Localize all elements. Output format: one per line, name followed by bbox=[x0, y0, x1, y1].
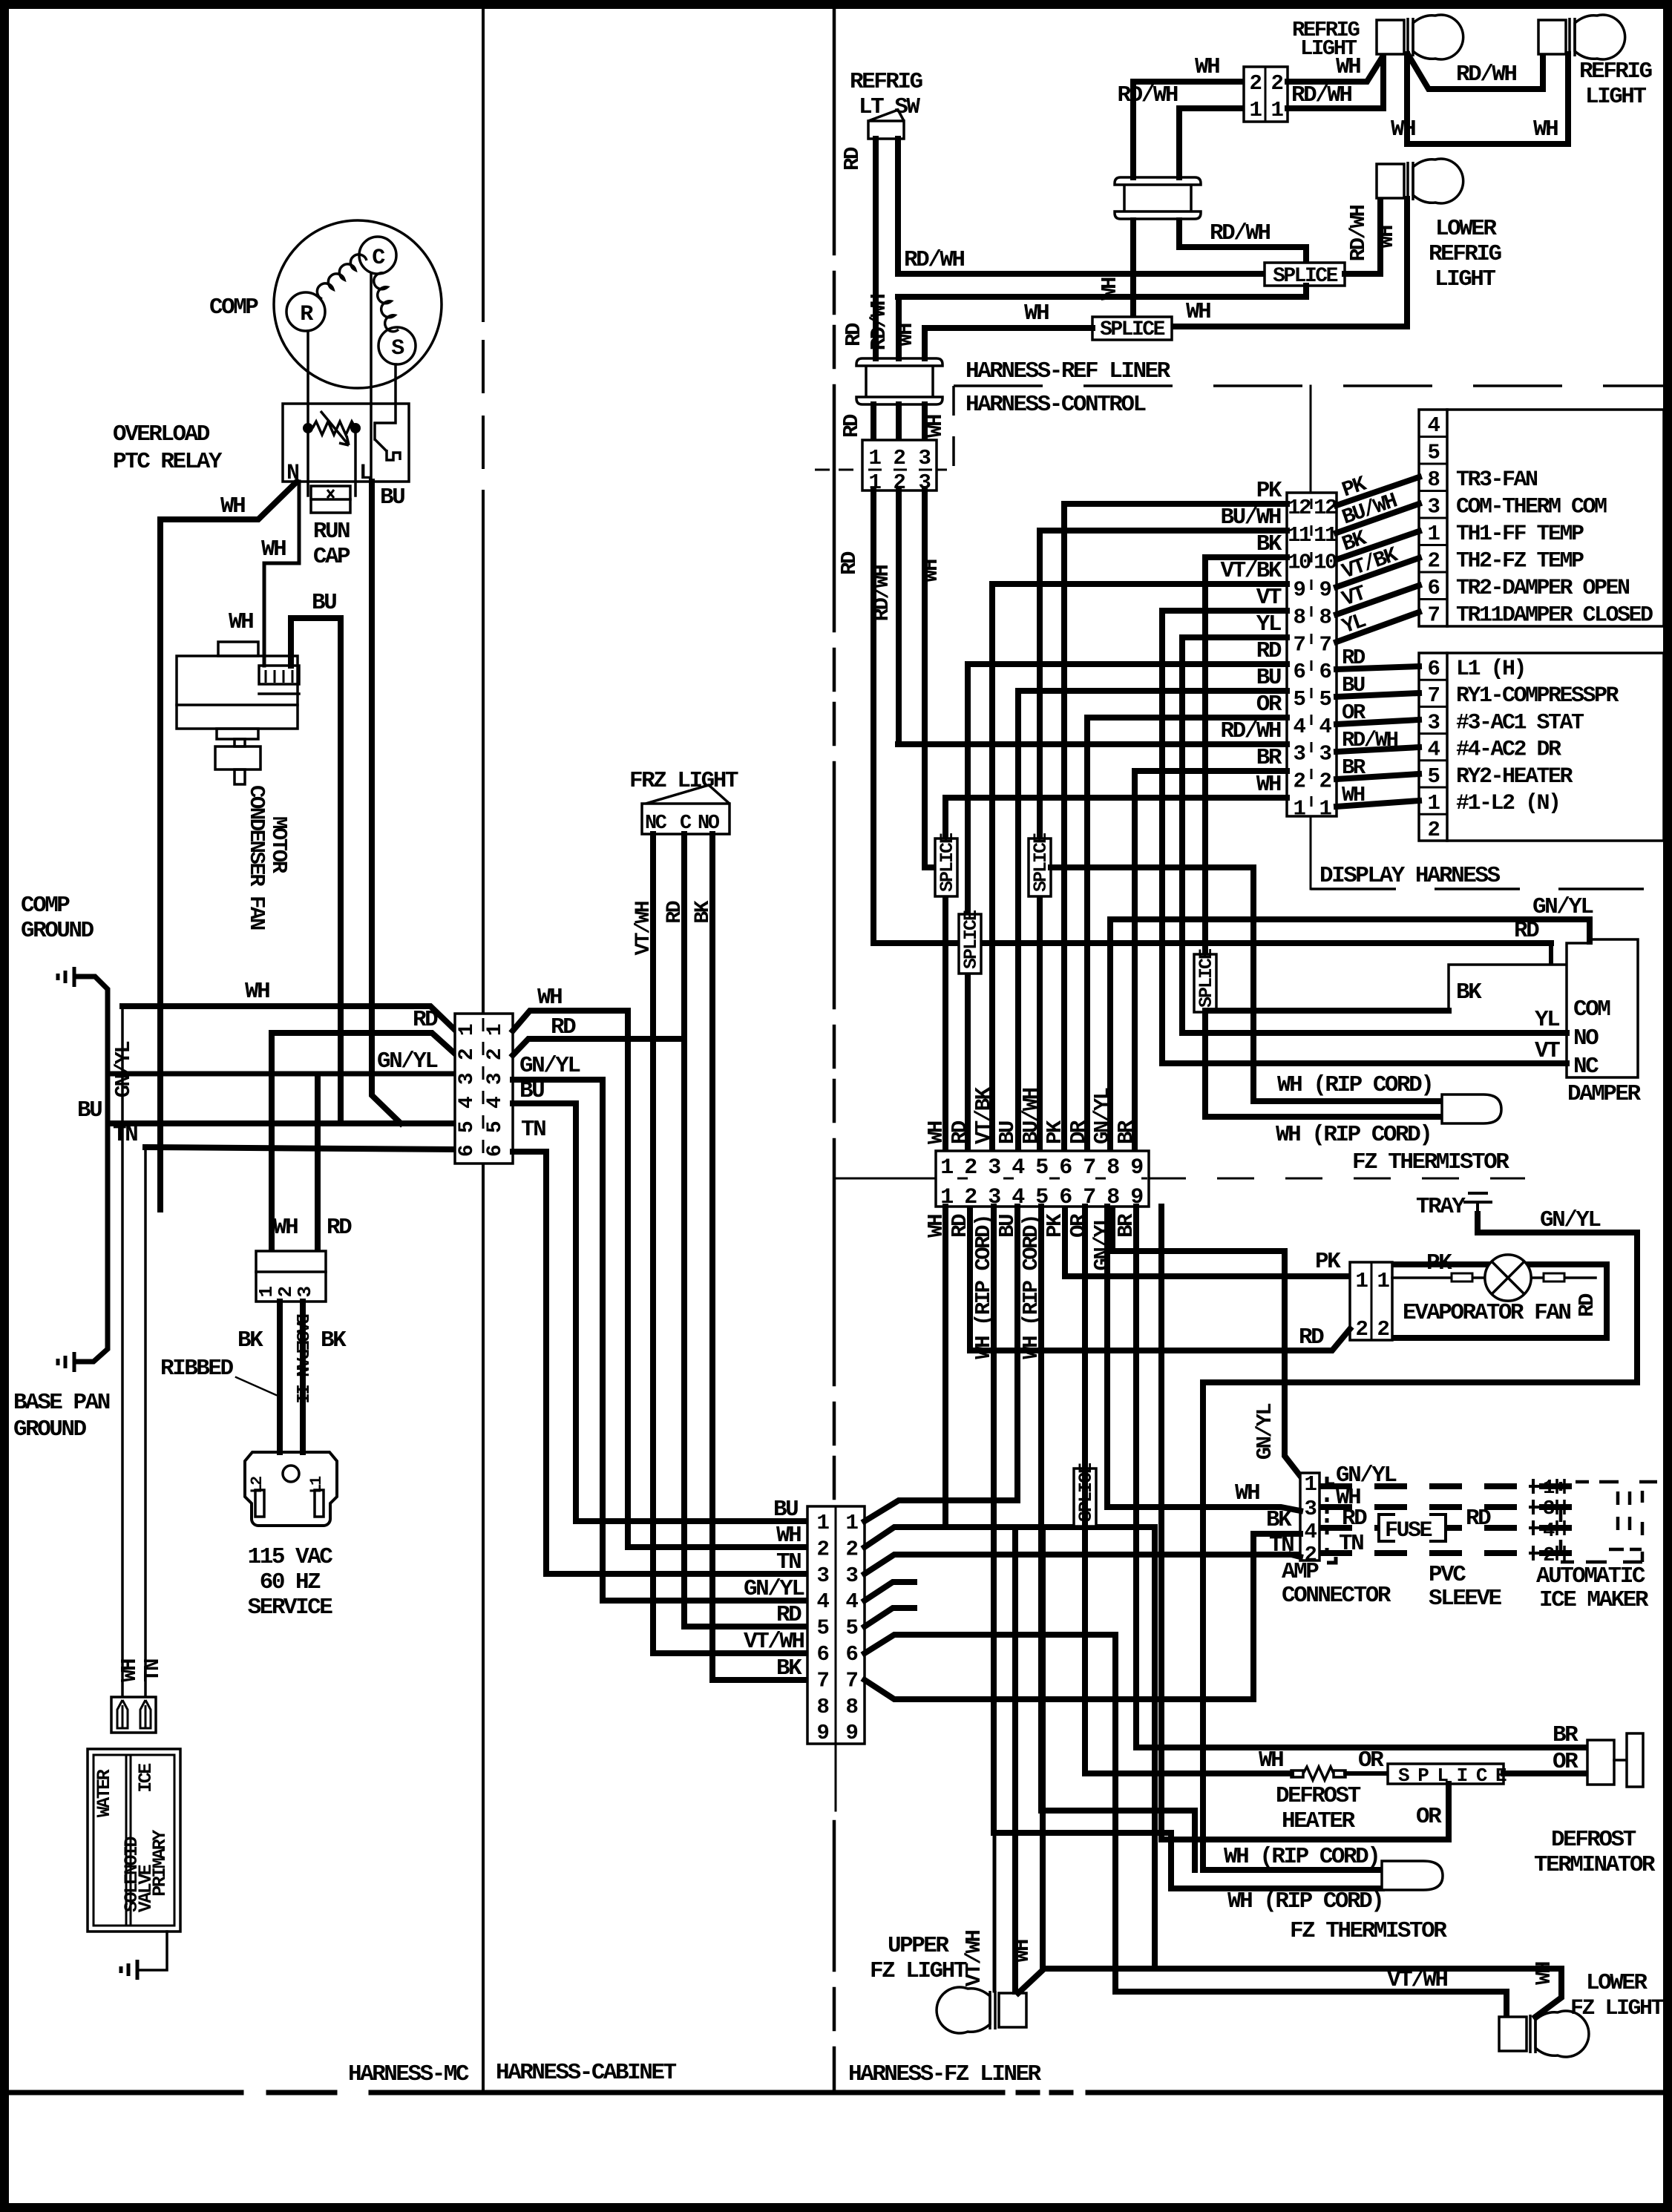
svg-text:BU: BU bbox=[380, 485, 404, 511]
cable clamp upper (WH RD/WH) bbox=[1115, 177, 1201, 219]
svg-text:9: 9 bbox=[817, 1721, 829, 1745]
table1 row line 3 bbox=[1419, 490, 1447, 492]
wire RD into damper bbox=[1549, 943, 1553, 963]
123 mid dashes bbox=[815, 469, 947, 471]
water valve outer box bbox=[88, 1749, 180, 1932]
wire RD lt sw bbox=[873, 139, 879, 358]
wire WH l9exit bbox=[865, 1527, 1155, 1547]
junction relay right bbox=[350, 423, 361, 433]
wire WH from N to motor bbox=[264, 482, 299, 666]
wire WH run bbox=[628, 1544, 807, 1550]
wire OR drop bbox=[1084, 718, 1090, 1151]
wire WH 9pin1 down bbox=[942, 1207, 948, 1527]
motor shaft1 bbox=[235, 739, 245, 746]
svg-text:4: 4 bbox=[1428, 413, 1440, 438]
table2 row line 6 bbox=[1419, 813, 1447, 815]
splice RD/WH (lower refrig light) bbox=[1265, 263, 1345, 286]
wire BK drop bbox=[1202, 557, 1208, 1117]
display harness table lower bbox=[1419, 653, 1664, 841]
svg-text:5: 5 bbox=[1428, 764, 1440, 789]
wire GN/YL run bbox=[603, 1598, 807, 1604]
wire VT/BK 12pin stub bbox=[992, 581, 1287, 587]
wire GN/YL to basepan gnd bbox=[77, 1074, 108, 1362]
terminal R bbox=[286, 292, 325, 331]
svg-text:1: 1 bbox=[1543, 1477, 1555, 1500]
wire OR to splice bbox=[1345, 1771, 1388, 1776]
plug hole bbox=[283, 1466, 299, 1482]
defrost heater resistor bbox=[1291, 1767, 1345, 1780]
connector P6 cabinet bulkhead bbox=[455, 1014, 513, 1164]
bottom boundary a bbox=[9, 2090, 241, 2096]
svg-text:10: 10 bbox=[1288, 551, 1311, 575]
svg-text:BK: BK bbox=[776, 1655, 802, 1681]
svg-text:RD: RD bbox=[413, 1007, 438, 1033]
svg-text:5: 5 bbox=[1428, 441, 1440, 465]
plug slot L2 bbox=[255, 1490, 264, 1517]
svg-text:S P L I C E: S P L I C E bbox=[1398, 1765, 1507, 1787]
wire BR run bbox=[1136, 1745, 1587, 1750]
wire VT 12pin to table1 bbox=[1337, 585, 1419, 614]
wire ripcord2 leg bbox=[1205, 1012, 1442, 1117]
wire PK evap internal bbox=[1392, 1276, 1596, 1279]
svg-text:RD: RD bbox=[837, 551, 862, 575]
wire WH lower drop bbox=[1152, 1527, 1158, 1969]
svg-text:3: 3 bbox=[294, 1287, 316, 1298]
wire S down bbox=[375, 364, 396, 439]
svg-text:9: 9 bbox=[1130, 1155, 1143, 1181]
svg-text:BU: BU bbox=[77, 1097, 102, 1123]
svg-text:9: 9 bbox=[846, 1721, 858, 1745]
wire RD/WH splice bottom bbox=[898, 286, 1306, 297]
defrost terminator body bbox=[1587, 1740, 1614, 1785]
svg-text:HARNESS-FZ LINER: HARNESS-FZ LINER bbox=[848, 2061, 1042, 2087]
connector evap fan 2-pin bbox=[1350, 1262, 1392, 1340]
wire BU 12pin stub bbox=[1018, 688, 1287, 694]
relay switch contact bbox=[375, 439, 400, 460]
svg-text:RD/WH: RD/WH bbox=[1220, 718, 1280, 744]
condenser motor body bbox=[177, 656, 298, 729]
svg-text:COM: COM bbox=[1573, 997, 1610, 1023]
wire OR return bbox=[1161, 1784, 1449, 1839]
wire ripcord1 from spliceC bbox=[1051, 867, 1442, 1101]
wire BK frz bbox=[709, 834, 715, 1680]
svg-text:3: 3 bbox=[1428, 710, 1440, 735]
svg-text:DAMPER: DAMPER bbox=[1567, 1081, 1642, 1107]
svg-text:ICE: ICE bbox=[135, 1764, 157, 1793]
splice BU/WH (C) bbox=[1029, 838, 1051, 896]
run capacitor box bbox=[311, 486, 350, 513]
svg-text:6: 6 bbox=[1428, 657, 1440, 681]
table2 pin col bbox=[1446, 653, 1449, 841]
wire BK basepan R bbox=[300, 1302, 306, 1452]
wire GN/YL comp ground bbox=[76, 977, 108, 1074]
wire BU from L bbox=[372, 482, 401, 1123]
wire RD 6pin exit bbox=[513, 1039, 684, 1055]
motor boss bbox=[217, 729, 258, 739]
evap fan terminal tick 1 bbox=[1452, 1273, 1472, 1281]
wire BU/WH drop bbox=[1037, 531, 1043, 1151]
wire OR splice to terminator bbox=[1504, 1770, 1587, 1776]
svg-text:TN: TN bbox=[140, 1659, 165, 1682]
svg-text:RD: RD bbox=[327, 1215, 352, 1241]
svg-text:4: 4 bbox=[456, 1097, 479, 1109]
svg-text:BU: BU bbox=[519, 1078, 544, 1104]
svg-text:RD: RD bbox=[1575, 1293, 1599, 1317]
lamp lower refrig light bbox=[1377, 159, 1463, 203]
divider mc/cabinet lower bbox=[482, 491, 485, 2093]
svg-text:2: 2 bbox=[964, 1155, 977, 1181]
6pin divider dashes bbox=[482, 1018, 485, 1153]
svg-text:8: 8 bbox=[1294, 605, 1305, 629]
svg-text:HARNESS-CABINET: HARNESS-CABINET bbox=[496, 2060, 676, 2086]
wire BK l9exit bbox=[865, 1680, 1253, 1699]
svg-text:4: 4 bbox=[1305, 1520, 1317, 1544]
wire TN dashed icemaker bbox=[1319, 1550, 1590, 1556]
motor shaft2 bbox=[235, 769, 245, 784]
svg-text:VT/WH: VT/WH bbox=[744, 1629, 804, 1655]
svg-text:BU: BU bbox=[1256, 665, 1281, 691]
svg-text:2: 2 bbox=[1356, 1317, 1368, 1342]
svg-text:6: 6 bbox=[484, 1145, 507, 1157]
svg-text:GN/YL: GN/YL bbox=[1090, 1215, 1115, 1271]
svg-text:3: 3 bbox=[988, 1155, 1000, 1181]
bottom boundary b bbox=[269, 2090, 335, 2096]
svg-text:OR: OR bbox=[1416, 1804, 1442, 1830]
svg-text:TH1-FF TEMP: TH1-FF TEMP bbox=[1456, 522, 1584, 547]
wire BU run bbox=[576, 1518, 807, 1524]
wire WH to 2x2 bbox=[1133, 82, 1244, 177]
svg-text:L1: L1 bbox=[307, 1476, 326, 1494]
wire RD/WH splice to bulb bbox=[1345, 202, 1380, 274]
table2 row line 1 bbox=[1419, 679, 1447, 681]
svg-text:UPPER: UPPER bbox=[888, 1933, 949, 1959]
wire BU to 6pin-5 left bbox=[109, 1120, 455, 1126]
wire RD 12pin stub bbox=[968, 661, 1287, 667]
bottom boundary d bbox=[1018, 2090, 1037, 2096]
dashed boundary vertical at 1285 bbox=[952, 386, 955, 470]
svg-text:DR: DR bbox=[1066, 1120, 1091, 1144]
switch FRZ light bbox=[642, 804, 730, 834]
svg-text:FZ LIGHT: FZ LIGHT bbox=[1570, 1996, 1665, 2021]
svg-text:REFRIG: REFRIG bbox=[1579, 59, 1653, 85]
svg-text:WH: WH bbox=[273, 1215, 298, 1241]
svg-text:6: 6 bbox=[817, 1642, 829, 1667]
svg-text:1: 1 bbox=[1428, 522, 1440, 546]
svg-text:BK: BK bbox=[1256, 531, 1282, 557]
svg-text:RD: RD bbox=[948, 1120, 972, 1144]
svg-text:2: 2 bbox=[846, 1537, 858, 1561]
svg-text:5: 5 bbox=[1294, 687, 1305, 712]
svg-text:WH: WH bbox=[1391, 116, 1415, 142]
svg-text:WH: WH bbox=[1256, 772, 1281, 798]
svg-text:SPLICE: SPLICE bbox=[937, 833, 958, 892]
compressor start winding bbox=[317, 255, 367, 299]
wire VT 12pin stub bbox=[1162, 608, 1287, 614]
svg-text:6: 6 bbox=[1294, 660, 1305, 684]
svg-text:6: 6 bbox=[1059, 1155, 1072, 1181]
wire YL to damper bbox=[1182, 1030, 1567, 1036]
wire valve ground bbox=[139, 1932, 167, 1970]
motor band2 bbox=[177, 703, 298, 706]
bottom boundary e bbox=[1052, 2090, 1071, 2096]
svg-text:WATER: WATER bbox=[94, 1769, 115, 1817]
svg-text:L2: L2 bbox=[248, 1477, 266, 1494]
svg-text:2: 2 bbox=[894, 446, 905, 470]
svg-text:5: 5 bbox=[484, 1121, 507, 1133]
l9pin divider bbox=[835, 1506, 837, 1744]
wire VT/WH lower fz bbox=[1115, 1635, 1507, 2017]
wire WH dashed icemaker bbox=[1319, 1504, 1590, 1510]
svg-text:3: 3 bbox=[456, 1073, 479, 1085]
svg-text:3: 3 bbox=[1294, 742, 1305, 767]
svg-text:GN/YL: GN/YL bbox=[1532, 894, 1593, 920]
table2 row line 5 bbox=[1419, 787, 1447, 789]
svg-text:MOTOR: MOTOR bbox=[266, 816, 291, 874]
wire BU 12pin to table2 bbox=[1337, 693, 1419, 697]
svg-text:VT/BK: VT/BK bbox=[971, 1086, 996, 1144]
wire PK 12pin stub bbox=[1064, 501, 1287, 507]
svg-text:S: S bbox=[391, 336, 404, 361]
svg-text:OR: OR bbox=[1256, 692, 1282, 718]
svg-text:TRAY: TRAY bbox=[1416, 1194, 1466, 1220]
wire GN/YL 9pin8 to AMP bbox=[1112, 1207, 1300, 1476]
svg-text:7: 7 bbox=[1294, 632, 1305, 657]
svg-text:OR: OR bbox=[1342, 700, 1366, 725]
compressor run winding bbox=[374, 273, 399, 332]
svg-text:4: 4 bbox=[1428, 738, 1440, 762]
svg-text:RD: RD bbox=[776, 1602, 801, 1628]
svg-text:TH2-FZ TEMP: TH2-FZ TEMP bbox=[1456, 549, 1584, 574]
PTC resistor bbox=[312, 421, 355, 435]
terminal C bbox=[359, 237, 396, 274]
wire TN l9exit bbox=[865, 1555, 1300, 1574]
wire GN/YL dashed icemaker bbox=[1319, 1483, 1590, 1489]
svg-text:BR: BR bbox=[1256, 745, 1282, 771]
wire WH-ripcord pin3 bbox=[994, 1207, 1382, 1888]
svg-text:5: 5 bbox=[1035, 1155, 1048, 1181]
svg-text:OR: OR bbox=[1358, 1747, 1384, 1773]
svg-text:RD/WH: RD/WH bbox=[1342, 728, 1398, 752]
svg-text:GN/YL: GN/YL bbox=[519, 1053, 580, 1079]
table1 row line 5 bbox=[1419, 544, 1447, 546]
wire WH upper fz straight bbox=[1012, 1527, 1018, 1992]
svg-text:8: 8 bbox=[846, 1695, 858, 1719]
l9pin stem bbox=[835, 1744, 837, 1811]
splice WH (A) bbox=[935, 838, 957, 896]
svg-text:BASE PAN: BASE PAN bbox=[13, 1390, 110, 1416]
svg-text:AUTOMATIC: AUTOMATIC bbox=[1536, 1563, 1645, 1589]
svg-text:YL: YL bbox=[1535, 1007, 1559, 1033]
svg-text:C: C bbox=[372, 246, 385, 271]
svg-text:VALVE: VALVE bbox=[135, 1865, 157, 1912]
wire RD dashed icemaker bbox=[1319, 1525, 1590, 1531]
wire BR 12pin stub bbox=[1135, 768, 1287, 774]
svg-text:WH: WH bbox=[1024, 301, 1049, 326]
svg-text:1: 1 bbox=[940, 1155, 953, 1181]
svg-text:1: 1 bbox=[1428, 791, 1440, 815]
svg-text:WH: WH bbox=[1186, 299, 1210, 325]
wire WH 12pin to table2 bbox=[1337, 801, 1419, 807]
svg-text:4: 4 bbox=[817, 1589, 830, 1614]
wire RD/WH 123 down bbox=[896, 490, 902, 744]
wire PK 12pin to table1 bbox=[1337, 477, 1419, 505]
svg-text:SPLICE: SPLICE bbox=[1030, 833, 1052, 892]
svg-text:BU: BU bbox=[773, 1497, 798, 1523]
svg-text:6: 6 bbox=[1428, 576, 1440, 600]
wire GN/YL 6pin exit bbox=[513, 1080, 603, 1601]
wire RD/WH clamp down bbox=[1179, 220, 1306, 263]
connector 2x2 refrig light bbox=[1244, 67, 1288, 122]
svg-text:RY1-COMPRESSPR: RY1-COMPRESSPR bbox=[1456, 683, 1619, 709]
fz thermistor bullet lower bbox=[1382, 1861, 1443, 1890]
svg-text:7: 7 bbox=[1083, 1155, 1095, 1181]
terminal S bbox=[378, 327, 416, 364]
wire WH lower run bbox=[1407, 54, 1568, 144]
9x2 mid dashes bbox=[957, 1178, 1147, 1180]
svg-text:TR11DAMPER CLOSED: TR11DAMPER CLOSED bbox=[1456, 603, 1653, 629]
wire RD/WH lt sw bbox=[895, 139, 901, 274]
svg-text:CAP: CAP bbox=[313, 544, 350, 570]
svg-text:8: 8 bbox=[1428, 467, 1440, 492]
wire BK basepan L bbox=[277, 1302, 283, 1452]
svg-text:WH: WH bbox=[1235, 1480, 1259, 1506]
wire WH bundle bbox=[625, 1011, 631, 1547]
svg-text:WH: WH bbox=[117, 1659, 142, 1682]
wire WH 123 down bbox=[922, 490, 928, 867]
9x2 boundary line left bbox=[834, 1178, 936, 1180]
wire C down bbox=[370, 274, 373, 479]
svg-text:RD/WH: RD/WH bbox=[870, 565, 894, 622]
svg-text:HARNESS-MC: HARNESS-MC bbox=[348, 2061, 469, 2087]
wire BU 6pin exit bbox=[513, 1103, 576, 1521]
svg-text:COM-THERM COM: COM-THERM COM bbox=[1456, 495, 1607, 520]
wire RD/WH above clamp2 bbox=[896, 297, 902, 358]
wire BU drop bbox=[1015, 691, 1021, 1151]
wire OR 12pin to table2 bbox=[1337, 720, 1419, 724]
svg-text:SPLICE: SPLICE bbox=[960, 910, 982, 969]
wire BU pin4 drop bbox=[1014, 1207, 1020, 1500]
svg-text:BU: BU bbox=[312, 590, 336, 616]
svg-text:SPLICE: SPLICE bbox=[1196, 949, 1217, 1008]
svg-text:BR: BR bbox=[1342, 755, 1366, 780]
svg-text:PK: PK bbox=[1043, 1120, 1067, 1144]
refrig switch lever bbox=[868, 110, 904, 121]
wire BR 12pin to table2 bbox=[1337, 774, 1419, 779]
svg-text:11: 11 bbox=[1288, 523, 1311, 548]
svg-text:RD: RD bbox=[1256, 638, 1282, 664]
defrost terminator cap bbox=[1627, 1733, 1643, 1787]
fuse white back bbox=[1377, 1514, 1446, 1542]
svg-text:2: 2 bbox=[964, 1185, 977, 1210]
wire basepan drop2 bbox=[315, 1078, 321, 1254]
dashed boundary display harness bbox=[1311, 887, 1664, 890]
wire RD/WH 2x2 right bbox=[1288, 55, 1383, 108]
wire BU/WH 12pin stub bbox=[1040, 528, 1287, 534]
svg-text:1: 1 bbox=[1356, 1269, 1368, 1293]
valve divider a bbox=[125, 1755, 128, 1926]
svg-text:BK: BK bbox=[1456, 979, 1482, 1005]
svg-text:AMP: AMP bbox=[1282, 1559, 1319, 1585]
svg-text:3: 3 bbox=[817, 1563, 829, 1588]
svg-text:1: 1 bbox=[1271, 98, 1284, 122]
svg-text:DEFROST: DEFROST bbox=[1276, 1783, 1361, 1809]
svg-text:RD: RD bbox=[1299, 1325, 1324, 1350]
svg-text:RD: RD bbox=[1342, 646, 1366, 670]
svg-text:PK: PK bbox=[1256, 478, 1282, 504]
svg-text:10: 10 bbox=[1314, 551, 1337, 575]
condenser motor terminal block bbox=[259, 666, 299, 684]
svg-text:8: 8 bbox=[817, 1695, 829, 1719]
switch refrig light bbox=[868, 121, 904, 139]
damper BK box bbox=[1449, 965, 1567, 1011]
motor band1 bbox=[259, 692, 299, 695]
compressor COMP outline bbox=[274, 220, 442, 388]
wire YL 12pin to table1 bbox=[1337, 612, 1419, 642]
divider mc/cabinet upper bbox=[482, 9, 485, 321]
svg-text:#3-AC1 STAT: #3-AC1 STAT bbox=[1456, 710, 1584, 735]
svg-text:WH: WH bbox=[1259, 1747, 1283, 1773]
PTC arrow bbox=[321, 411, 349, 445]
connector 12-pin control board bbox=[1287, 493, 1337, 816]
base pan ground symbol bbox=[58, 1352, 74, 1372]
svg-text:WH (RIP CORD): WH (RIP CORD) bbox=[1276, 1122, 1431, 1148]
svg-text:WH: WH bbox=[537, 985, 562, 1011]
svg-text:4: 4 bbox=[1319, 715, 1332, 739]
wire RD frz bbox=[681, 834, 687, 1039]
svg-text:2: 2 bbox=[1428, 818, 1440, 842]
svg-text:5: 5 bbox=[1319, 687, 1331, 712]
wire BU/WH 12pin to table1 bbox=[1337, 504, 1419, 533]
svg-text:7: 7 bbox=[817, 1668, 829, 1693]
splice WH amp bbox=[1074, 1468, 1096, 1526]
wire WH splice2 left bbox=[925, 328, 1092, 358]
run cap mark bbox=[327, 490, 334, 498]
dashed boundary harness-ref-liner/control bbox=[954, 384, 1663, 387]
cable clamp left (RD RD/WH WH) bbox=[856, 358, 942, 404]
wire WH lower refrig bbox=[1172, 199, 1407, 326]
svg-text:RD/WH: RD/WH bbox=[1117, 82, 1177, 108]
svg-text:WH: WH bbox=[919, 559, 943, 582]
svg-text:VT: VT bbox=[1256, 585, 1282, 611]
svg-text:RD: RD bbox=[842, 323, 866, 347]
wire WH amp drop bbox=[1104, 1207, 1110, 1507]
table1 row line 2 bbox=[1419, 463, 1447, 465]
svg-text:TN: TN bbox=[113, 1122, 137, 1148]
wire WH from N bbox=[160, 482, 297, 1210]
svg-text:4: 4 bbox=[1543, 1520, 1555, 1543]
wire VT/WH run bbox=[653, 1650, 807, 1656]
wire RD 12pin to table2 bbox=[1337, 666, 1419, 669]
wire BK 12pin stub bbox=[1205, 554, 1287, 560]
svg-text:9: 9 bbox=[1319, 578, 1331, 603]
plug terminal pins bbox=[117, 1700, 151, 1728]
wire to cap right bbox=[354, 428, 357, 496]
svg-text:1: 1 bbox=[869, 446, 882, 470]
wire RD run bbox=[684, 1624, 807, 1630]
svg-text:TN: TN bbox=[521, 1117, 545, 1143]
fuse dashed box bbox=[1379, 1514, 1446, 1541]
terminal block pins bbox=[266, 670, 292, 683]
connector 9x2 ref-liner/fz-liner bulkhead bbox=[936, 1151, 1149, 1207]
svg-text:VT/WH: VT/WH bbox=[632, 902, 655, 955]
table2 row line 4 bbox=[1419, 759, 1447, 761]
svg-text:VT: VT bbox=[1535, 1038, 1560, 1064]
wire WH defrost drop bbox=[1082, 1207, 1088, 1773]
wire WH 12pin stub bbox=[945, 795, 1287, 801]
svg-text:WH (RIP CORD): WH (RIP CORD) bbox=[1224, 1844, 1379, 1870]
wire RD/WH to 2x2 bbox=[1179, 108, 1244, 177]
svg-text:4: 4 bbox=[1294, 715, 1306, 739]
